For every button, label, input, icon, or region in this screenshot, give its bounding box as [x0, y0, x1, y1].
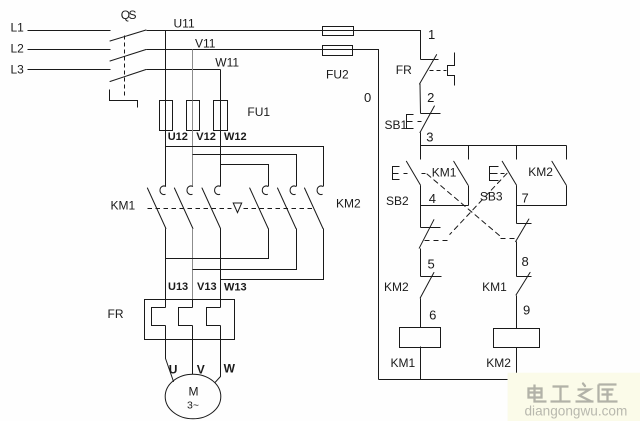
- wire node 3 segment: [420, 133, 422, 146]
- svg-text:1: 1: [428, 27, 435, 42]
- switch QS handle: [110, 90, 138, 108]
- svg-text:FU1: FU1: [247, 105, 270, 119]
- button SB1 (NC stop): [421, 113, 441, 115]
- svg-text:3: 3: [426, 130, 433, 145]
- switch QS blade pole 1: [110, 30, 146, 41]
- svg-text:U12: U12: [168, 131, 188, 143]
- contact KM1 aux (NO self-hold): [468, 146, 470, 160]
- svg-text:M: M: [189, 385, 199, 399]
- svg-text:2: 2: [427, 90, 434, 105]
- svg-text:W12: W12: [224, 131, 247, 143]
- thermal relay FR box: [145, 300, 235, 340]
- watermark glyphs 电工之屋: [529, 384, 618, 402]
- svg-text:QS: QS: [121, 8, 137, 22]
- svg-text:5: 5: [428, 257, 435, 272]
- wire V11 drop to fuse 2 (gray): [192, 50, 194, 101]
- contact KM2 NC interlock (between 5 and 6): [421, 276, 442, 278]
- wire branch U12 to KM2 right column: [166, 147, 324, 187]
- wire U13 to motor: [165, 326, 167, 359]
- svg-text:4: 4: [429, 191, 436, 206]
- svg-text:9: 9: [523, 303, 530, 318]
- fuse FU1 element 2: [187, 101, 200, 131]
- fuse FU1 element 1: [160, 101, 173, 131]
- svg-text:KM1: KM1: [482, 280, 507, 294]
- fuse FU1 element 3: [214, 101, 228, 131]
- svg-text:L1: L1: [11, 21, 25, 35]
- switch QS blade pole 2: [110, 50, 146, 62]
- wire L2 incoming: [28, 49, 111, 51]
- FR trip actuator: [448, 53, 455, 86]
- glyph dian: [529, 385, 547, 402]
- svg-text:0: 0: [364, 90, 371, 105]
- button SB2 (NO start fwd): [420, 146, 422, 160]
- svg-text:KM1: KM1: [111, 199, 136, 213]
- watermark box: [508, 373, 640, 421]
- FR heater element 2: [179, 308, 193, 326]
- svg-text:W11: W11: [215, 56, 239, 70]
- svg-text:6: 6: [429, 307, 436, 322]
- button SB3 (NO start rev): [516, 146, 518, 160]
- contactor KM2 main contact 2: [290, 186, 296, 195]
- wire W11 drop to fuse 3: [220, 70, 222, 101]
- contactor KM2 main contact 1: [262, 186, 268, 195]
- svg-text:KM2: KM2: [486, 356, 511, 370]
- wire below KM2 contact 1 + merge to U13: [166, 229, 269, 259]
- svg-text:U13: U13: [168, 281, 188, 293]
- switch QS mechanical link (dashed): [124, 36, 126, 98]
- svg-text:7: 7: [522, 191, 529, 206]
- wire U12 down to KM1 contact: [165, 131, 167, 187]
- svg-text:L2: L2: [11, 42, 25, 56]
- wire below KM2 contact 2 + merge to V13: [193, 229, 297, 270]
- contact KM1 NC interlock (between 8 and 9): [517, 276, 532, 278]
- wire V12 down to KM1 contact (gray): [192, 131, 194, 187]
- contactor KM1 main contact 3: [215, 186, 221, 195]
- wire node 2 segment: [419, 84, 422, 113]
- contact SB3-NC (between 4 and 5): [420, 206, 422, 228]
- wire U11: [147, 30, 323, 32]
- dashed link SB2 to SB2-NC: [427, 174, 500, 236]
- svg-text:U11: U11: [174, 16, 195, 30]
- wire below KM1 contact 1: [165, 229, 167, 308]
- contact SB2-NC (between 7 and 8): [516, 206, 518, 224]
- wire below KM2 contact 3 + merge to W13: [221, 229, 324, 280]
- svg-text:FU2: FU2: [326, 67, 349, 81]
- coil KM1: [400, 328, 441, 348]
- wire U11 drop to fuse 1: [165, 31, 167, 101]
- wire W13 to motor: [220, 326, 222, 377]
- KM1 mechanical link dashes left: [148, 208, 232, 210]
- contactor KM1 main contact 1: [160, 186, 166, 195]
- contactor KM2 main contact 3: [317, 186, 323, 195]
- glyph wu: [598, 385, 618, 402]
- svg-text:KM1: KM1: [432, 166, 457, 180]
- wire below KM1 contact 2 (gray): [192, 229, 194, 300]
- FR heater element 1: [152, 308, 166, 326]
- wire fuse2 to neutral rail 0: [352, 50, 379, 380]
- wire W12 down to KM1 contact: [220, 131, 222, 187]
- glyph zhi: [576, 384, 594, 402]
- contactor KM1 main contact 2: [187, 186, 193, 195]
- wire bus node 3: [421, 145, 567, 147]
- wire branch W12 to KM2 left column: [221, 165, 269, 187]
- svg-text:KM2: KM2: [384, 280, 409, 294]
- svg-text:V: V: [197, 363, 205, 377]
- svg-text:SB3: SB3: [480, 190, 503, 204]
- wire W11: [147, 69, 221, 71]
- svg-text:SB2: SB2: [386, 194, 409, 208]
- wire branch V12 to KM2 middle column: [193, 155, 297, 187]
- svg-text:KM1: KM1: [391, 356, 416, 370]
- svg-text:V13: V13: [197, 281, 217, 293]
- svg-text:SB1: SB1: [385, 118, 408, 132]
- wire V11: [147, 49, 323, 51]
- switch QS blade pole 3: [110, 70, 146, 82]
- svg-text:FR: FR: [396, 63, 412, 77]
- svg-text:KM2: KM2: [336, 197, 361, 211]
- dashed link SB3 to SB3-NC: [450, 173, 507, 234]
- wire bottom bus 0: [379, 379, 508, 381]
- svg-text:L3: L3: [11, 63, 25, 77]
- KM2 mechanical link dashes right: [244, 208, 316, 210]
- wire below KM1 contact 3: [220, 229, 222, 308]
- FR trip dashed link: [430, 70, 447, 72]
- svg-text:W: W: [224, 362, 236, 376]
- wire fuse1 to control rail with corner: [354, 31, 421, 60]
- svg-text:V11: V11: [195, 37, 216, 51]
- wire L1 incoming: [28, 30, 111, 32]
- svg-text:V12: V12: [196, 131, 216, 143]
- FR heater element 3: [207, 308, 221, 326]
- wire V13 to motor: [192, 326, 194, 375]
- svg-text:U: U: [169, 363, 178, 377]
- svg-text:8: 8: [522, 254, 529, 269]
- svg-text:W13: W13: [224, 282, 247, 294]
- fuse FU2 element 1: [323, 27, 354, 36]
- svg-text:diangongwu.com: diangongwu.com: [525, 404, 628, 419]
- fuse FU2 element 2: [323, 46, 353, 56]
- wire L3 incoming: [28, 69, 111, 71]
- glyph gong: [551, 387, 571, 402]
- coil KM2: [494, 329, 540, 348]
- svg-text:3~: 3~: [187, 400, 199, 412]
- wire bus node 7: [517, 205, 567, 207]
- contact FR (NC, control): [421, 59, 439, 61]
- svg-text:KM2: KM2: [528, 165, 553, 179]
- svg-text:FR: FR: [108, 307, 124, 321]
- contact KM2 aux (NO self-hold): [566, 146, 568, 160]
- link triangle marker: [233, 203, 242, 213]
- wire bus node 4: [421, 205, 469, 207]
- motor M: [165, 374, 221, 419]
